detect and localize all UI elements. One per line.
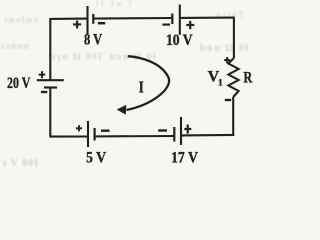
battery B3 5V minus sign xyxy=(101,129,110,131)
svg-text:17 V: 17 V xyxy=(171,150,198,167)
svg-text:bnɒ Ω 0ɬ: bnɒ Ω 0ɬ xyxy=(200,43,250,54)
battery B4 17V long plate (+ terminal) xyxy=(180,117,182,145)
resistor voltage V1 plus sign xyxy=(224,57,230,63)
current loop arrow I head xyxy=(118,106,126,114)
current loop arrow I arc xyxy=(127,56,170,110)
svg-text:1: 1 xyxy=(218,79,223,89)
battery B2 10V short plate (- terminal) xyxy=(171,14,173,25)
wire right side lower xyxy=(232,97,234,136)
battery B2 10V long plate (+ terminal) xyxy=(179,5,181,35)
battery B2 10V minus sign xyxy=(162,24,170,26)
svg-text:20 V: 20 V xyxy=(7,75,31,92)
wire right side upper xyxy=(233,18,235,58)
battery B1 8V short plate (- terminal) xyxy=(92,14,94,24)
wire top-right segment xyxy=(180,17,235,19)
battery B3 5V long plate (+ terminal) xyxy=(87,121,89,147)
svg-text:8 V: 8 V xyxy=(84,32,102,49)
resistor voltage V1 minus sign xyxy=(225,99,231,101)
wire top-middle segment xyxy=(93,17,172,20)
battery B5 20V short plate (- terminal) xyxy=(44,86,57,88)
wire bottom-left segment xyxy=(49,135,88,137)
svg-text:10 V: 10 V xyxy=(166,32,193,49)
wire top-left segment xyxy=(49,18,87,20)
wire bottom-middle segment xyxy=(95,135,175,137)
battery B1 8V plus sign xyxy=(73,21,81,29)
battery B1 8V minus sign xyxy=(98,22,105,25)
battery B5 20V minus sign xyxy=(41,91,47,93)
svg-text:ɜ V 00I: ɜ V 00I xyxy=(2,158,39,169)
svg-text:il ln l: il ln l xyxy=(96,0,134,8)
battery B3 5V short plate (- terminal) xyxy=(93,128,95,141)
svg-text:I: I xyxy=(139,77,144,96)
wire left side lower xyxy=(49,88,51,137)
wire left side upper xyxy=(49,19,51,80)
svg-text:ɔɔnnɐ: ɔɔnnɐ xyxy=(0,41,30,52)
svg-text:ʇnɘlɒv: ʇnɘlɒv xyxy=(4,15,40,26)
battery B5 20V plus sign xyxy=(39,71,46,78)
resistor R zigzag xyxy=(228,58,238,97)
battery B1 8V long plate (+ terminal) xyxy=(86,6,88,34)
svg-text:R: R xyxy=(243,69,252,86)
wire bottom-right segment xyxy=(181,134,234,137)
svg-text:5 V: 5 V xyxy=(86,150,107,167)
battery B4 17V plus sign xyxy=(184,125,191,134)
battery B4 17V short plate (- terminal) xyxy=(173,127,175,142)
battery B2 10V plus sign xyxy=(186,21,194,29)
battery B5 20V long plate (+ terminal) xyxy=(37,79,64,81)
battery B3 5V plus sign xyxy=(76,125,82,131)
battery B4 17V minus sign xyxy=(158,129,167,131)
